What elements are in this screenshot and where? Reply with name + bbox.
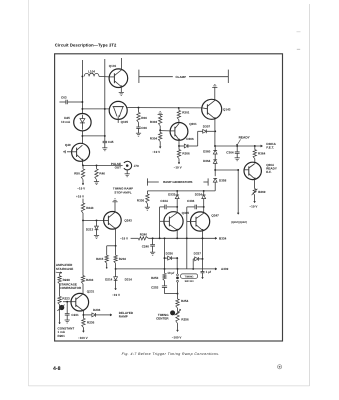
arrow delaying ramp <box>110 314 112 316</box>
wire Q105 right <box>127 107 138 109</box>
resistor R253 <box>164 269 166 274</box>
svg-text:RAMP: RAMP <box>119 315 128 319</box>
node bus left <box>82 164 84 166</box>
capacitor C231 <box>66 302 68 314</box>
resistor R216 <box>115 246 117 256</box>
ground D213 <box>94 234 99 236</box>
page bottom edge <box>28 385 309 387</box>
wire rail to Q105 base <box>82 108 109 110</box>
svg-text:R301: R301 <box>182 110 190 114</box>
resistor R66 <box>138 108 140 113</box>
svg-text:D337: D337 <box>194 251 202 255</box>
svg-text:J79: J79 <box>134 164 139 168</box>
wire base bus Q243 <box>83 219 104 221</box>
wire riser to D307 <box>197 131 199 146</box>
wire branch left R215 <box>107 245 116 247</box>
wire C336 left down <box>186 207 188 269</box>
resistor R223 <box>58 296 61 304</box>
resistor R228 <box>58 276 61 284</box>
wire riser down to delayed trigger <box>237 170 239 213</box>
svg-text:Q301: Q301 <box>189 122 197 126</box>
clamp bracket line left <box>139 76 173 78</box>
ground Q143 collector <box>212 86 217 88</box>
transistor Q364 ready EF <box>244 162 261 179</box>
arrow R50 to -19V <box>82 184 84 186</box>
resistor R50 <box>82 165 84 169</box>
capacitor C364 <box>236 146 238 152</box>
diode chain D360 <box>214 146 216 150</box>
capacitor C253 <box>164 281 166 286</box>
arrow R304 to -19V <box>159 147 161 149</box>
wire rail B upper <box>104 59 106 141</box>
wire Q105 bottom stub <box>117 119 119 123</box>
node switch riser <box>177 293 179 295</box>
svg-text:B334: B334 <box>219 236 227 240</box>
svg-text:D214: D214 <box>105 278 113 282</box>
svg-text:C240: C240 <box>142 244 150 248</box>
svg-text:Q143: Q143 <box>223 107 231 111</box>
svg-text:STAIRCASE: STAIRCASE <box>56 267 73 271</box>
wire node to Q301 base <box>160 130 170 132</box>
wire Q101 emitter down <box>120 87 122 92</box>
wire x165.5 bus1 to bus2 <box>164 238 166 269</box>
svg-text:B369: B369 <box>258 190 266 194</box>
node bus2 left <box>115 268 117 270</box>
resistor R304 <box>159 130 161 132</box>
node R364 <box>254 145 256 147</box>
svg-text:R254: R254 <box>181 299 189 303</box>
wire main left rail upper <box>81 60 83 114</box>
svg-text:−19 V: −19 V <box>249 205 258 209</box>
node diode chain <box>214 169 216 171</box>
wire Q143 collector <box>214 87 216 100</box>
terminal Q49 base <box>64 150 66 153</box>
wire input to R228 <box>59 273 61 276</box>
svg-text:R306: R306 <box>182 152 190 156</box>
svg-text:C66: C66 <box>141 126 147 130</box>
svg-text:R364: R364 <box>258 151 266 155</box>
arrow R256 to -100V <box>177 330 179 332</box>
svg-text:C334: C334 <box>160 199 168 203</box>
ground Q243 collector <box>112 201 117 203</box>
wire Q49 emitter to bus <box>81 160 83 165</box>
svg-text:R228: R228 <box>63 278 71 282</box>
node rail D333 <box>176 190 178 192</box>
wire READY rail <box>215 145 261 147</box>
ground R336 <box>145 206 150 208</box>
resistor R233 <box>81 276 84 284</box>
clamp bracket left bar <box>138 70 140 83</box>
resistor R215 <box>105 255 108 263</box>
transistor Q335 <box>164 212 183 231</box>
wire Q335 emitter to bus1 <box>176 230 178 238</box>
svg-text:−100 V: −100 V <box>78 336 89 340</box>
svg-text:−100 V: −100 V <box>172 335 183 339</box>
svg-text:D236: D236 <box>93 308 101 312</box>
wire rail y107.6 to Q143 <box>139 107 203 109</box>
node below tunnel diode <box>81 135 83 137</box>
transistor Q105 <box>109 101 127 119</box>
wire Q347 emitter down <box>202 230 204 259</box>
svg-text:−19 V: −19 V <box>152 150 161 154</box>
arrow lamp to -19V <box>254 201 256 203</box>
wire -19V to R240 <box>131 237 139 239</box>
resistor R254 <box>176 299 179 308</box>
arrow riser down <box>237 213 239 215</box>
node R301 top <box>178 107 180 109</box>
svg-text:+19 V: +19 V <box>76 194 85 198</box>
connector J79 <box>124 161 132 170</box>
svg-text:R66: R66 <box>141 116 147 120</box>
switch contact top <box>177 274 179 276</box>
ground C45 <box>102 147 107 149</box>
terminal R215 end <box>106 267 108 269</box>
node C364 <box>236 145 238 147</box>
node emitter branch <box>115 245 117 247</box>
svg-text:C253: C253 <box>151 286 159 290</box>
svg-text:C231: C231 <box>71 313 79 317</box>
svg-text:10 μf: 10 μf <box>167 271 175 275</box>
svg-text:D307: D307 <box>203 124 211 128</box>
ground C240 <box>150 251 155 253</box>
diode D214 <box>115 269 117 277</box>
page left edge <box>27 0 29 386</box>
wire D334 node to Q347 collector <box>203 207 205 213</box>
wire node to C45 <box>82 135 104 137</box>
ramp generators bracket <box>146 178 148 185</box>
resistor R236 <box>82 315 84 319</box>
pot knob timing calib <box>170 310 175 315</box>
svg-text:Q105: Q105 <box>121 120 129 124</box>
arrow bus2 A339 <box>215 268 217 270</box>
wire Q231 base left <box>63 301 71 303</box>
svg-text:RAMP GENERATORS: RAMP GENERATORS <box>163 180 192 184</box>
svg-text:D306: D306 <box>186 137 194 141</box>
ground Q101 emitter <box>119 91 124 93</box>
arrow D214 to -19V <box>115 289 117 291</box>
svg-text:R304: R304 <box>150 136 158 140</box>
node C231 <box>66 301 68 303</box>
node Q301 emitter <box>178 145 180 147</box>
ground C66 <box>136 132 141 134</box>
svg-text:R236: R236 <box>87 321 95 325</box>
switch riser from bus2 <box>177 268 179 270</box>
scan artifact dashes <box>297 31 301 33</box>
svg-text:10 mA: 10 mA <box>61 120 71 124</box>
svg-text:E.F.: E.F. <box>266 170 271 174</box>
switch contact bottom <box>177 280 179 282</box>
resistor R46 <box>96 165 98 169</box>
svg-text:OUT: OUT <box>115 166 122 170</box>
arrow R236 to -100V <box>83 331 85 333</box>
svg-text:Q101: Q101 <box>109 64 117 68</box>
svg-text:D360: D360 <box>203 150 211 154</box>
arrow R306 to -19V <box>178 163 180 165</box>
wire C334 left down <box>159 207 161 238</box>
clamp bracket line right <box>189 76 228 78</box>
svg-text:R243: R243 <box>86 206 94 210</box>
node rail D334 <box>203 190 205 192</box>
resistor R256 <box>176 312 179 324</box>
resistor R336 <box>146 191 148 194</box>
capacitor C66 <box>136 126 140 128</box>
svg-text:Q49: Q49 <box>65 143 71 147</box>
svg-text:4-8: 4-8 <box>53 366 61 372</box>
diode D358 <box>214 170 216 176</box>
svg-text:Q231: Q231 <box>87 290 95 294</box>
transistor Q301 <box>170 122 188 140</box>
svg-text:R215: R215 <box>96 257 104 261</box>
transistor Q243 <box>104 212 122 230</box>
svg-text:Q243: Q243 <box>124 219 132 223</box>
svg-text:SW 310: SW 310 <box>185 280 195 283</box>
svg-text:TIMING: TIMING <box>185 275 194 278</box>
svg-text:R223: R223 <box>62 296 70 300</box>
clamp bracket right bar <box>227 70 229 83</box>
wire Q101 collector up <box>120 58 122 70</box>
lamp B369 <box>253 189 256 195</box>
svg-text:D334: D334 <box>195 192 203 196</box>
node base riser <box>237 169 239 171</box>
wire D333 node to Q335 collector <box>176 207 178 213</box>
arrow staircase input <box>56 271 61 273</box>
svg-text:READY: READY <box>239 136 251 140</box>
node L104 junction <box>81 75 83 77</box>
node bus R46 <box>96 164 98 166</box>
wire bus2 <box>116 268 216 270</box>
wire below tunnel diode <box>81 131 83 145</box>
svg-text:R261: R261 <box>58 334 66 338</box>
node R66 top <box>138 107 140 109</box>
arrow READY rail to D381A <box>261 145 263 147</box>
wire rail down to staircase comparator <box>82 220 84 275</box>
svg-text:R240: R240 <box>140 232 148 236</box>
svg-text:R233: R233 <box>86 278 94 282</box>
resistor R243 <box>82 199 84 203</box>
page right edge <box>309 4 311 386</box>
svg-text:D336: D336 <box>166 251 174 255</box>
svg-text:Circuit Description—Type 3T2: Circuit Description—Type 3T2 <box>55 42 117 47</box>
arrow bus1 B334 <box>215 237 217 239</box>
svg-text:Q335: Q335 <box>182 211 190 215</box>
wire D336 right to bus2 <box>176 258 178 269</box>
svg-text:L104: L104 <box>88 70 95 74</box>
wire node to Q364 base riser <box>215 169 238 171</box>
svg-text:R216: R216 <box>119 257 127 261</box>
svg-text:D358: D358 <box>219 178 227 182</box>
node C63 rail <box>81 101 83 103</box>
resistor R301 <box>178 108 180 111</box>
resistor R303 <box>159 115 161 116</box>
transistor Q143 <box>202 99 222 119</box>
svg-text:R50: R50 <box>74 171 80 175</box>
ground J79 <box>125 173 130 175</box>
svg-text:R46: R46 <box>99 171 105 175</box>
svg-text:C63: C63 <box>61 96 67 100</box>
transistor Q101 <box>109 69 128 88</box>
diode D213 <box>96 220 98 226</box>
svg-text:COMPARATOR: COMPARATOR <box>60 286 82 290</box>
wire ramp rail <box>147 190 215 192</box>
svg-text:D314: D314 <box>125 278 133 282</box>
ground R303 top <box>158 114 163 116</box>
node R303 R304 <box>159 129 161 131</box>
svg-text:C336: C336 <box>187 199 195 203</box>
wire bus1 <box>148 237 215 239</box>
svg-text:D213: D213 <box>86 227 94 231</box>
ground R46 <box>94 181 99 183</box>
svg-text:−19 V: −19 V <box>120 236 129 240</box>
ground C364 <box>235 157 240 159</box>
svg-text:Q347: Q347 <box>211 214 219 218</box>
wire Q231 emitter down <box>82 311 84 315</box>
node cap C334 <box>176 206 178 208</box>
node D307 emitter rail <box>214 130 216 132</box>
svg-text:−19 V: −19 V <box>174 166 183 170</box>
svg-text:STOP AMPL: STOP AMPL <box>114 190 131 194</box>
svg-text:Fig. 4-7 Before Trigger Timin: Fig. 4-7 Before Trigger Timing Ramp Conv… <box>122 352 220 356</box>
svg-text:R303: R303 <box>150 120 158 124</box>
svg-text:R256: R256 <box>181 317 189 321</box>
capacitor C240 <box>152 238 154 244</box>
svg-text:C45: C45 <box>108 140 114 144</box>
svg-text:D333: D333 <box>168 192 176 196</box>
schematic frame <box>55 54 283 341</box>
wire Q301 emitter down <box>178 140 180 146</box>
wire bus y165.4 <box>82 164 122 166</box>
svg-text:C364: C364 <box>226 150 234 154</box>
node cap C336 <box>203 206 205 208</box>
timing switch box <box>181 274 198 278</box>
svg-text:R253: R253 <box>151 276 159 280</box>
svg-text:−19 V: −19 V <box>112 293 121 297</box>
svg-text:CLAMP: CLAMP <box>175 75 186 79</box>
wire C253 to switch riser <box>165 293 178 295</box>
svg-text:−19 V: −19 V <box>77 187 86 191</box>
svg-text:A339: A339 <box>221 267 229 271</box>
pot knob R223 <box>59 305 64 310</box>
wire D337 left to bus2 <box>192 259 194 269</box>
node bus1 C240 <box>152 237 154 239</box>
ground C231 <box>65 319 70 321</box>
node rail B join <box>104 108 106 110</box>
capacitor C45 <box>104 135 106 137</box>
svg-text:R336: R336 <box>137 199 145 203</box>
transistor Q347 <box>191 212 210 231</box>
arrow left rail down <box>59 323 61 324</box>
resistor R364 <box>254 146 256 150</box>
resistor R306 <box>178 146 180 150</box>
svg-text:(Q357)(Q367): (Q357)(Q367) <box>231 221 247 224</box>
wire J79 ground <box>126 170 128 174</box>
wire Q143 emitter down <box>214 119 216 146</box>
svg-text:F.E.T.: F.E.T. <box>266 145 274 149</box>
switch wiper <box>176 277 179 280</box>
svg-text:D364: D364 <box>203 159 211 163</box>
inductor L104 <box>84 73 99 76</box>
wire L104 to Q101 base <box>99 75 109 78</box>
node Q231 emitter <box>82 314 84 316</box>
wire Q243 emitter down <box>115 229 117 246</box>
wire Q364 emitter down <box>254 179 256 189</box>
svg-text:CENTER: CENTER <box>156 316 169 320</box>
capacitor 1uf <box>202 259 204 272</box>
registered mark <box>278 365 282 369</box>
